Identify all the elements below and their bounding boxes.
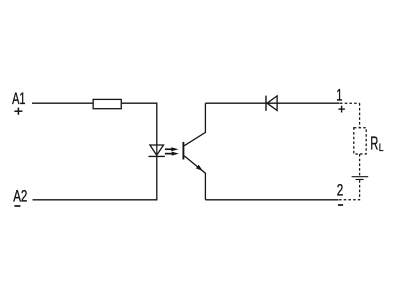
plus polarity mark at A1 bbox=[14, 108, 22, 115]
wire emitter to terminal 2 bbox=[205, 199, 338, 201]
wire collector to diode bbox=[205, 102, 266, 104]
phototransistor emitter wire bbox=[184, 156, 205, 200]
dashed wire down to load resistor bbox=[359, 103, 361, 128]
wire through diode to terminal 1 bbox=[267, 102, 340, 104]
resistor R (series input) bbox=[93, 99, 121, 108]
phototransistor base bar bbox=[182, 142, 184, 160]
dashed wire terminal 1 to load branch bbox=[340, 102, 360, 104]
light arrow 2 (lower) bbox=[165, 152, 179, 156]
dashed wire battery to terminal 2 bbox=[339, 180, 360, 200]
minus polarity mark at A2 bbox=[14, 205, 20, 207]
plus polarity mark at terminal 1 bbox=[338, 106, 345, 113]
battery cell positive plate (long) bbox=[352, 176, 369, 178]
minus polarity mark at terminal 2 bbox=[338, 204, 343, 206]
svg-text:1: 1 bbox=[336, 87, 342, 105]
phototransistor collector wire bbox=[184, 103, 205, 146]
svg-text:2: 2 bbox=[337, 182, 344, 200]
svg-text:A2: A2 bbox=[13, 188, 27, 206]
LED cathode bar bbox=[149, 155, 165, 157]
light arrow 1 (upper) bbox=[165, 147, 179, 151]
LED triangle (anode) bbox=[150, 145, 164, 155]
diode cathode bar bbox=[265, 96, 267, 111]
emitter arrowhead bbox=[196, 165, 203, 171]
load resistor RL (dashed outline) bbox=[354, 128, 366, 154]
battery cell negative plate (short) bbox=[356, 179, 364, 181]
diode triangle (pointing left) bbox=[267, 96, 277, 111]
wire resistor to LED anode corner bbox=[121, 103, 157, 145]
dashed wire load resistor to battery bbox=[359, 154, 361, 176]
svg-text:R: R bbox=[370, 133, 378, 154]
wire A1 to resistor bbox=[32, 102, 93, 104]
svg-text:A1: A1 bbox=[12, 90, 25, 108]
wire LED cathode to A2 rail bbox=[33, 156, 157, 199]
LED vertical wire through symbol bbox=[156, 144, 158, 157]
svg-text:L: L bbox=[379, 142, 384, 154]
